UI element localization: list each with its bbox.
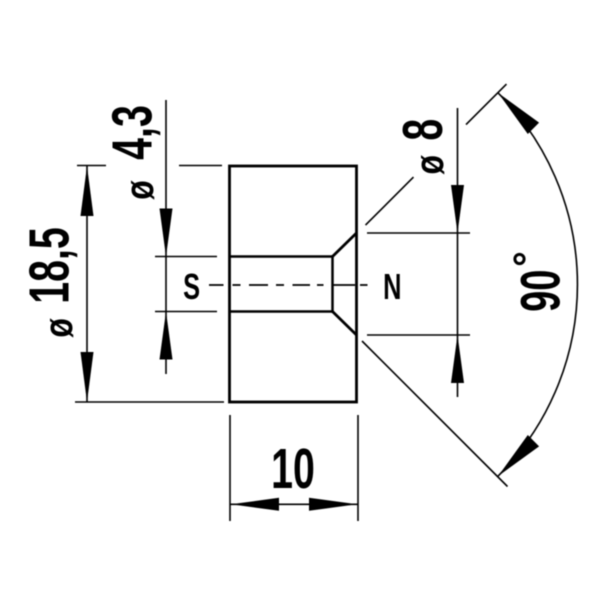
dim ø8: upper extension line (367, 232, 470, 234)
svg-text:10: 10 (271, 438, 315, 501)
dim ø18,5: dimension line (86, 166, 88, 402)
svg-text:N: N (383, 267, 401, 308)
dim 10: right arrow (309, 498, 357, 511)
centerline S-N (dash-dot) (209, 284, 368, 286)
dim ø8: lower (up) arrow (451, 335, 464, 383)
dim ø18,5: up arrow (81, 166, 94, 216)
svg-text:ø: ø (117, 180, 162, 200)
countersink bottom slant (333, 312, 357, 336)
svg-text:ø: ø (407, 155, 452, 175)
angle 90deg: top arc arrow (498, 93, 539, 134)
dim ø18,5: down arrow (81, 352, 94, 402)
angle 90deg: upper leg segment A (366, 177, 414, 225)
dim ø8: upper (down) arrow (451, 185, 464, 233)
countersink top slant (333, 233, 357, 257)
countersink root vertical (331, 255, 334, 312)
dim ø4,3: upper (down) arrow (160, 209, 173, 257)
hole bottom edge (230, 310, 333, 313)
angle 90deg: bottom arc arrow (498, 435, 539, 476)
angle 90deg: lower leg (362, 341, 508, 487)
svg-text:90: 90 (511, 270, 573, 312)
hole top edge (230, 255, 333, 258)
svg-text:ø: ø (36, 318, 81, 338)
dim ø4,3: lower (up) arrow (160, 312, 173, 360)
dim 10: left arrow (231, 498, 279, 511)
dim 10: right extension line (357, 415, 359, 521)
svg-text:S: S (183, 267, 200, 308)
magnet body outline (230, 166, 357, 402)
angle 90deg: arc (498, 93, 577, 476)
dim ø8: lower extension line (367, 334, 470, 336)
dim ø8: dimension line (457, 108, 459, 397)
svg-text:8: 8 (392, 119, 455, 141)
dim ø4,3: dimension line (165, 100, 167, 374)
dim ø18,5: bottom extension line (75, 401, 224, 403)
dim ø18,5: top extension line (two parts, broken by text) (77, 165, 106, 167)
angle 90deg: upper leg segment B (466, 84, 507, 125)
dim ø4,3: lower extension line (155, 311, 217, 313)
dim ø4,3: upper extension line (155, 256, 217, 258)
svg-text:18,5: 18,5 (18, 227, 81, 304)
dim 10: left extension line (229, 415, 231, 521)
svg-text:4,3: 4,3 (101, 105, 164, 160)
dim 10: dimension line (230, 503, 358, 505)
